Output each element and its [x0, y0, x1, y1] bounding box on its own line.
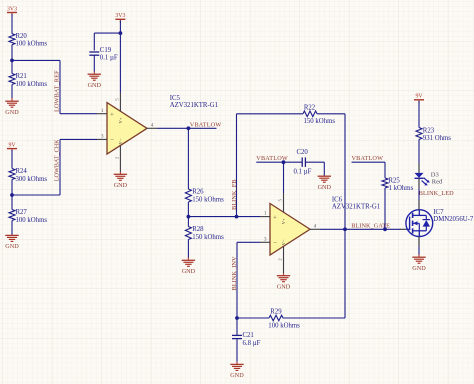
- svg-text:GND: GND: [5, 243, 19, 250]
- svg-text:300 kOhms: 300 kOhms: [16, 176, 48, 183]
- svg-text:−: −: [273, 240, 277, 247]
- wire R24 to node: [11, 180, 13, 196]
- ground below IC5: [119, 172, 121, 174]
- power 3V3 (above IC5): [115, 18, 125, 20]
- power 9V (right): [414, 99, 424, 101]
- wire R25 to BLINK_GATE: [384, 188, 386, 229]
- wire R20 to node: [11, 45, 13, 61]
- resistor R21: [9, 74, 15, 85]
- svg-text:D3: D3: [431, 172, 439, 179]
- wire C20 to ground: [305, 161, 324, 163]
- svg-text:GND: GND: [88, 82, 102, 89]
- wire R29 to output column: [283, 317, 345, 319]
- wire 9V to R24: [11, 150, 13, 169]
- svg-text:GND: GND: [182, 268, 196, 275]
- node output/feedback junction: [343, 227, 347, 231]
- wire 9V to R23: [418, 101, 420, 128]
- svg-text:R20: R20: [16, 33, 28, 40]
- svg-text:DMN2056U-7: DMN2056U-7: [433, 216, 474, 223]
- op-amp IC6 AZV321KTR-G1: [270, 204, 310, 256]
- svg-text:R25: R25: [389, 177, 401, 184]
- wire down to IC6 V+: [283, 162, 285, 193]
- svg-text:V−: V−: [281, 239, 286, 245]
- transistor IC7 DMN2056U-7 N-MOSFET: [406, 210, 433, 237]
- node BLINK_INV junction at C21/R29: [235, 316, 239, 320]
- wire to C19: [94, 32, 120, 34]
- svg-text:150 kOhms: 150 kOhms: [192, 234, 224, 241]
- ground below R28: [187, 258, 189, 261]
- wire BLINK_FB vertical up to R22: [236, 114, 238, 217]
- ground below R21: [11, 98, 13, 101]
- svg-text:V−: V−: [118, 138, 123, 144]
- IC5 pin 5 stub V+: [119, 93, 121, 112]
- svg-text:R23: R23: [423, 127, 435, 134]
- wire IC7 source to ground: [418, 247, 420, 255]
- IC5 pin 3 stub (- input): [97, 138, 107, 140]
- svg-text:AZV321KTR-G1: AZV321KTR-G1: [332, 204, 380, 211]
- IC6 pin 4 output stub: [310, 228, 320, 230]
- svg-text:R28: R28: [192, 226, 204, 233]
- svg-text:931 Ohms: 931 Ohms: [423, 135, 451, 142]
- svg-text:BLINK_LED: BLINK_LED: [419, 190, 454, 197]
- resistor R22: [303, 111, 317, 117]
- svg-text:150 kOhms: 150 kOhms: [304, 118, 336, 125]
- svg-text:9V: 9V: [415, 94, 423, 100]
- svg-text:R26: R26: [192, 189, 204, 196]
- svg-text:+: +: [273, 215, 277, 222]
- svg-text:9V: 9V: [8, 142, 16, 148]
- IC6 pin 2 stub V-: [283, 246, 285, 273]
- node R25 junction: [383, 227, 387, 231]
- wire VBATLOW stub to C20: [256, 161, 302, 163]
- wire R23 to D3: [418, 140, 420, 164]
- resistor R23: [416, 128, 422, 140]
- svg-text:1 kOhms: 1 kOhms: [389, 185, 414, 192]
- wire LOWBAT_REF node to IC5 pin1: [12, 59, 60, 61]
- wire C19 to ground: [93, 55, 95, 71]
- wire junction to IC6 pin1: [187, 202, 189, 227]
- svg-text:100 kOhms: 100 kOhms: [16, 81, 48, 88]
- IC5 pin 1 stub (+ input): [97, 113, 107, 115]
- svg-text:V+: V+: [281, 218, 286, 224]
- svg-text:R22: R22: [304, 105, 316, 112]
- ground below IC6: [283, 273, 285, 275]
- ground below IC7: [418, 255, 420, 258]
- node BLINK_FB junction at R26/R28: [187, 215, 191, 219]
- svg-text:C20: C20: [297, 149, 309, 156]
- resistor R29: [269, 315, 283, 321]
- node IC6 V+ tap junction: [282, 160, 286, 164]
- ground below C20: [323, 175, 325, 178]
- IC6 pin 5 stub V+: [283, 193, 285, 212]
- svg-text:GND: GND: [114, 182, 128, 189]
- svg-text:3V3: 3V3: [115, 13, 125, 19]
- svg-text:100 kOhms: 100 kOhms: [16, 40, 48, 47]
- wire node to R27: [11, 195, 13, 210]
- LED D3: [418, 163, 420, 173]
- svg-text:BLINK_INV: BLINK_INV: [231, 256, 238, 290]
- node VBATLOW junction: [187, 126, 191, 130]
- resistor R27: [9, 210, 15, 221]
- node C19 tap junction: [119, 31, 123, 35]
- wire C21 to ground: [236, 339, 238, 362]
- svg-text:GND: GND: [230, 372, 244, 379]
- node LOWBAT_REF divider junction: [10, 59, 14, 63]
- svg-text:R29: R29: [270, 308, 282, 315]
- svg-text:LOWBAT_CHK: LOWBAT_CHK: [54, 139, 61, 181]
- wire VBATLOW stub to R25: [352, 161, 386, 163]
- svg-text:LOWBAT_REF: LOWBAT_REF: [54, 70, 61, 112]
- power 9V (left): [7, 148, 17, 150]
- svg-text:150 kOhms: 150 kOhms: [192, 196, 224, 203]
- svg-text:R21: R21: [16, 73, 27, 80]
- wire R27 to ground: [11, 221, 13, 235]
- wire to R29: [237, 317, 269, 319]
- svg-text:3V3: 3V3: [7, 6, 17, 12]
- svg-text:AZV321KTR-G1: AZV321KTR-G1: [170, 102, 218, 109]
- node feedback tap junction: [235, 215, 239, 219]
- svg-text:BLINK_FB: BLINK_FB: [231, 179, 238, 210]
- ground below C19: [93, 72, 95, 75]
- svg-text:VBATLOW: VBATLOW: [190, 121, 222, 128]
- svg-text:R27: R27: [16, 209, 28, 216]
- op-amp IC5 AZV321KTR-G1: [107, 103, 147, 155]
- wire feedback column down to output node: [344, 114, 346, 229]
- svg-text:0.1 µF: 0.1 µF: [294, 169, 312, 176]
- wire R28 to ground: [187, 240, 189, 258]
- wire IC6 output BLINK_GATE: [320, 228, 400, 230]
- resistor R26: [185, 189, 191, 202]
- resistor R25: [382, 178, 388, 188]
- svg-text:GND: GND: [318, 184, 332, 191]
- svg-text:GND: GND: [277, 283, 291, 290]
- svg-text:GND: GND: [412, 265, 426, 272]
- wire IC6 pin3 to BLINK_INV column: [237, 241, 260, 243]
- svg-text:C19: C19: [100, 47, 112, 54]
- wire D3 to IC7 drain: [418, 189, 420, 200]
- svg-text:GND: GND: [5, 109, 19, 116]
- IC5 pin 4 output stub: [147, 127, 157, 129]
- svg-text:+: +: [110, 112, 114, 119]
- svg-text:Red: Red: [432, 179, 443, 186]
- wire R22 right to output column: [317, 113, 345, 115]
- wire VBATLOW down to R26: [187, 128, 189, 189]
- svg-text:R24: R24: [16, 168, 28, 175]
- svg-text:−: −: [110, 137, 114, 144]
- node LOWBAT_CHK divider junction: [10, 193, 14, 197]
- wire R21 to ground: [11, 85, 13, 99]
- wire 3V3 down to IC5 V+: [119, 21, 121, 93]
- wire 3V3 to R20: [11, 14, 13, 34]
- svg-text:100 kOhms: 100 kOhms: [16, 217, 48, 224]
- svg-text:VBATLOW: VBATLOW: [352, 155, 384, 162]
- wire LOWBAT_CHK node to IC5 pin3: [12, 194, 60, 196]
- capacitor C19: [89, 51, 99, 53]
- svg-text:IC6: IC6: [332, 197, 343, 204]
- ground below R27: [11, 234, 13, 237]
- IC6 pin 3 stub (- input): [260, 241, 270, 243]
- resistor R28: [185, 227, 191, 240]
- ground below C21: [236, 362, 238, 365]
- IC6 pin 1 stub (+ input): [260, 216, 270, 218]
- capacitor C21: [236, 318, 238, 335]
- wire node to R21: [11, 60, 13, 73]
- power 3V3 (left): [7, 12, 17, 14]
- resistor R24: [9, 169, 15, 180]
- IC5 pin 2 stub V-: [119, 145, 121, 172]
- resistor R20: [9, 34, 15, 45]
- wire to R22 left: [237, 113, 304, 115]
- svg-text:0.1 µF: 0.1 µF: [100, 55, 118, 62]
- svg-text:C21: C21: [243, 332, 254, 339]
- svg-text:IC5: IC5: [170, 95, 181, 102]
- svg-text:V+: V+: [118, 117, 123, 123]
- svg-text:6.8 µF: 6.8 µF: [243, 340, 261, 347]
- wire IC5 output VBATLOW: [157, 127, 217, 129]
- capacitor C20: [301, 157, 303, 167]
- svg-text:100 kOhms: 100 kOhms: [268, 323, 300, 330]
